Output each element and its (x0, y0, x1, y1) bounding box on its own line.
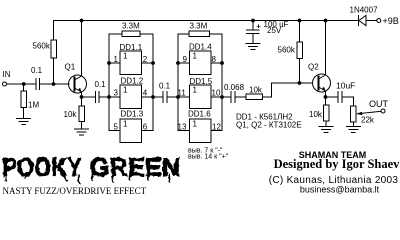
transistor Q2 (313, 74, 331, 92)
node Q2 emitter junction (324, 95, 328, 99)
svg-text:1: 1 (123, 52, 128, 61)
node 560k R4 to rail (298, 19, 302, 23)
svg-text:9: 9 (183, 55, 188, 64)
node pin8 (220, 61, 224, 65)
node 560k/Q2 base junction (298, 81, 302, 85)
resistor R5 3.3M (122, 31, 140, 37)
gate DD1.2 (120, 85, 142, 109)
wire Q2 emitter to C6 (326, 96, 339, 98)
svg-text:DD1.2: DD1.2 (121, 77, 144, 86)
wire DD1.5 pin11 (178, 96, 190, 98)
svg-text:3: 3 (114, 89, 119, 98)
ground under 22k (346, 127, 360, 133)
svg-text:3.3M: 3.3M (190, 22, 208, 31)
svg-text:GREEN: GREEN (90, 152, 180, 182)
ground under R3 (75, 129, 89, 135)
wire DD1.2 pin3 (109, 96, 120, 98)
svg-text:5: 5 (114, 122, 119, 131)
wire DD1.2 pin4 (142, 96, 154, 98)
wire Q2 emitter (325, 91, 327, 97)
potentiometer R9 22k (351, 106, 357, 127)
resistor R3 10k (79, 97, 85, 129)
svg-text:POOKY: POOKY (2, 152, 82, 182)
resistor R6 3.3M (189, 31, 210, 37)
svg-text:1: 1 (193, 119, 198, 128)
terminal IN (3, 82, 7, 86)
wire feedback top right (140, 33, 153, 35)
capacitor C3 0.1 (163, 92, 167, 103)
gate DD1.3 (120, 119, 142, 143)
svg-text:business@bamba.lt: business@bamba.lt (300, 184, 380, 194)
node pin1 (107, 61, 111, 65)
svg-text:0.1: 0.1 (159, 82, 171, 91)
diode 1N4007 (358, 15, 376, 25)
resistor R7 10k (246, 94, 263, 100)
svg-text:0.1: 0.1 (95, 80, 107, 89)
svg-text:1: 1 (123, 86, 128, 95)
svg-text:12: 12 (212, 122, 221, 131)
svg-text:10uF: 10uF (336, 80, 355, 90)
svg-text:8: 8 (212, 55, 217, 64)
svg-text:DD1.4: DD1.4 (189, 43, 212, 52)
capacitor C6 10uF (338, 92, 342, 103)
svg-text:OUT: OUT (369, 99, 389, 109)
wire feedback top left (109, 33, 122, 35)
svg-text:1: 1 (193, 86, 198, 95)
wire C1 to Q1 base (40, 83, 70, 85)
svg-text:NASTY FUZZ/OVERDRIVE EFFECT: NASTY FUZZ/OVERDRIVE EFFECT (3, 186, 147, 196)
svg-text:IN: IN (3, 70, 11, 79)
svg-text:6: 6 (143, 122, 148, 131)
ground under 1M (17, 118, 31, 124)
svg-text:2: 2 (143, 55, 148, 64)
node Q1 collector to rail (80, 19, 84, 23)
svg-text:560k: 560k (278, 46, 296, 55)
wire DD1.4-6 output rail (211, 34, 222, 131)
svg-text:22k: 22k (361, 116, 375, 125)
node 100uF to rail (251, 19, 255, 23)
wire block2 out to C4 (222, 96, 231, 98)
wire feedback2 top right (210, 33, 223, 35)
wire DD1.5 pin10 (211, 96, 222, 98)
logo POOKY GREEN (2, 152, 180, 184)
svg-text:1M: 1M (28, 101, 39, 110)
wire C2 to DD1 inputs (99, 96, 109, 98)
wire DD1.1 pin2 (142, 62, 154, 64)
wire DD1.4-6 input rail (178, 34, 190, 131)
svg-text:10k: 10k (64, 110, 78, 119)
svg-text:0.068: 0.068 (224, 83, 245, 92)
svg-text:DD1.3: DD1.3 (121, 110, 144, 119)
svg-text:25V: 25V (267, 26, 282, 35)
node pin9 (176, 61, 180, 65)
svg-text:DD1.6: DD1.6 (188, 110, 211, 119)
wire C6 to 22k pot (342, 97, 353, 106)
svg-text:0.1: 0.1 (31, 66, 43, 75)
transistor Q1 (69, 75, 87, 93)
wire Q1 emitter to C2 (82, 96, 96, 98)
capacitor C1 0.1 (36, 79, 40, 90)
wire C4 to R7 (235, 96, 246, 98)
wire Q2 collector (325, 21, 327, 76)
resistor R2 1M (21, 84, 27, 118)
svg-text:3.3M: 3.3M (122, 22, 140, 31)
svg-text:560k: 560k (33, 42, 51, 51)
node 560k/base junction (52, 82, 56, 86)
wire C3 to block2 (167, 96, 178, 98)
node pin10 (220, 95, 224, 99)
svg-text:выв. 14 к "+": выв. 14 к "+" (188, 153, 229, 160)
resistor R4 560k (297, 21, 303, 84)
wire DD1.4 pin9 (178, 62, 190, 64)
wire Q1 emitter (81, 92, 83, 97)
wire feedback2 top left (178, 33, 189, 35)
wire IN to C1 (7, 83, 37, 85)
ground under R8 (319, 127, 333, 133)
wire DD1.1 pin1 (109, 62, 120, 64)
svg-text:11: 11 (178, 89, 187, 98)
svg-text:1: 1 (123, 119, 128, 128)
wire block1 out to C3 (153, 96, 163, 98)
gate DD1.5 (190, 85, 212, 109)
wire top +9V rail (54, 21, 359, 41)
resistor R8 10k (323, 97, 329, 126)
svg-text:1N4007: 1N4007 (350, 6, 379, 15)
node IN/1M junction (22, 82, 26, 86)
ground under 100uF (246, 44, 260, 50)
svg-text:DD1.5: DD1.5 (190, 77, 213, 86)
wire pot wiper to OUT (356, 111, 381, 115)
wire DD1.1-3 input rail (109, 34, 120, 131)
resistor R1 560k (51, 40, 57, 84)
gate DD1.6 (190, 119, 212, 143)
svg-text:Q2: Q2 (308, 63, 319, 72)
terminal OUT (381, 109, 385, 113)
capacitor C4 0.068 (231, 92, 235, 103)
svg-text:10k: 10k (249, 86, 263, 95)
svg-text:4: 4 (143, 89, 148, 98)
wire Q1 collector (81, 21, 83, 77)
node pin11 (176, 95, 180, 99)
svg-text:DD1.1: DD1.1 (120, 43, 143, 52)
capacitor C5 100uF (247, 21, 260, 44)
capacitor C2 0.1 (96, 92, 100, 103)
node Q1 emitter junction (80, 95, 84, 99)
wire R7 to Q2 base (263, 83, 313, 97)
node Q2 collector to rail (324, 19, 328, 23)
svg-text:+9B: +9B (383, 16, 399, 26)
gate DD1.1 (120, 51, 142, 74)
node pin2 (151, 61, 155, 65)
node pin4 (151, 95, 155, 99)
wire DD1.1-3 output rail (142, 34, 154, 131)
svg-text:1: 1 (114, 55, 119, 64)
svg-text:13: 13 (178, 122, 187, 131)
svg-text:Q1, Q2 - КТ3102Е: Q1, Q2 - КТ3102Е (236, 121, 302, 130)
terminal +9B (377, 19, 381, 23)
svg-text:Q1: Q1 (65, 63, 76, 72)
svg-text:10k: 10k (309, 110, 323, 119)
svg-text:1: 1 (193, 52, 198, 61)
wire DD1.4 pin8 (211, 62, 222, 64)
node pin3 (107, 95, 111, 99)
gate DD1.4 (190, 51, 212, 74)
svg-text:10: 10 (212, 89, 221, 98)
svg-text:Designed by Igor Shaev: Designed by Igor Shaev (274, 157, 400, 171)
